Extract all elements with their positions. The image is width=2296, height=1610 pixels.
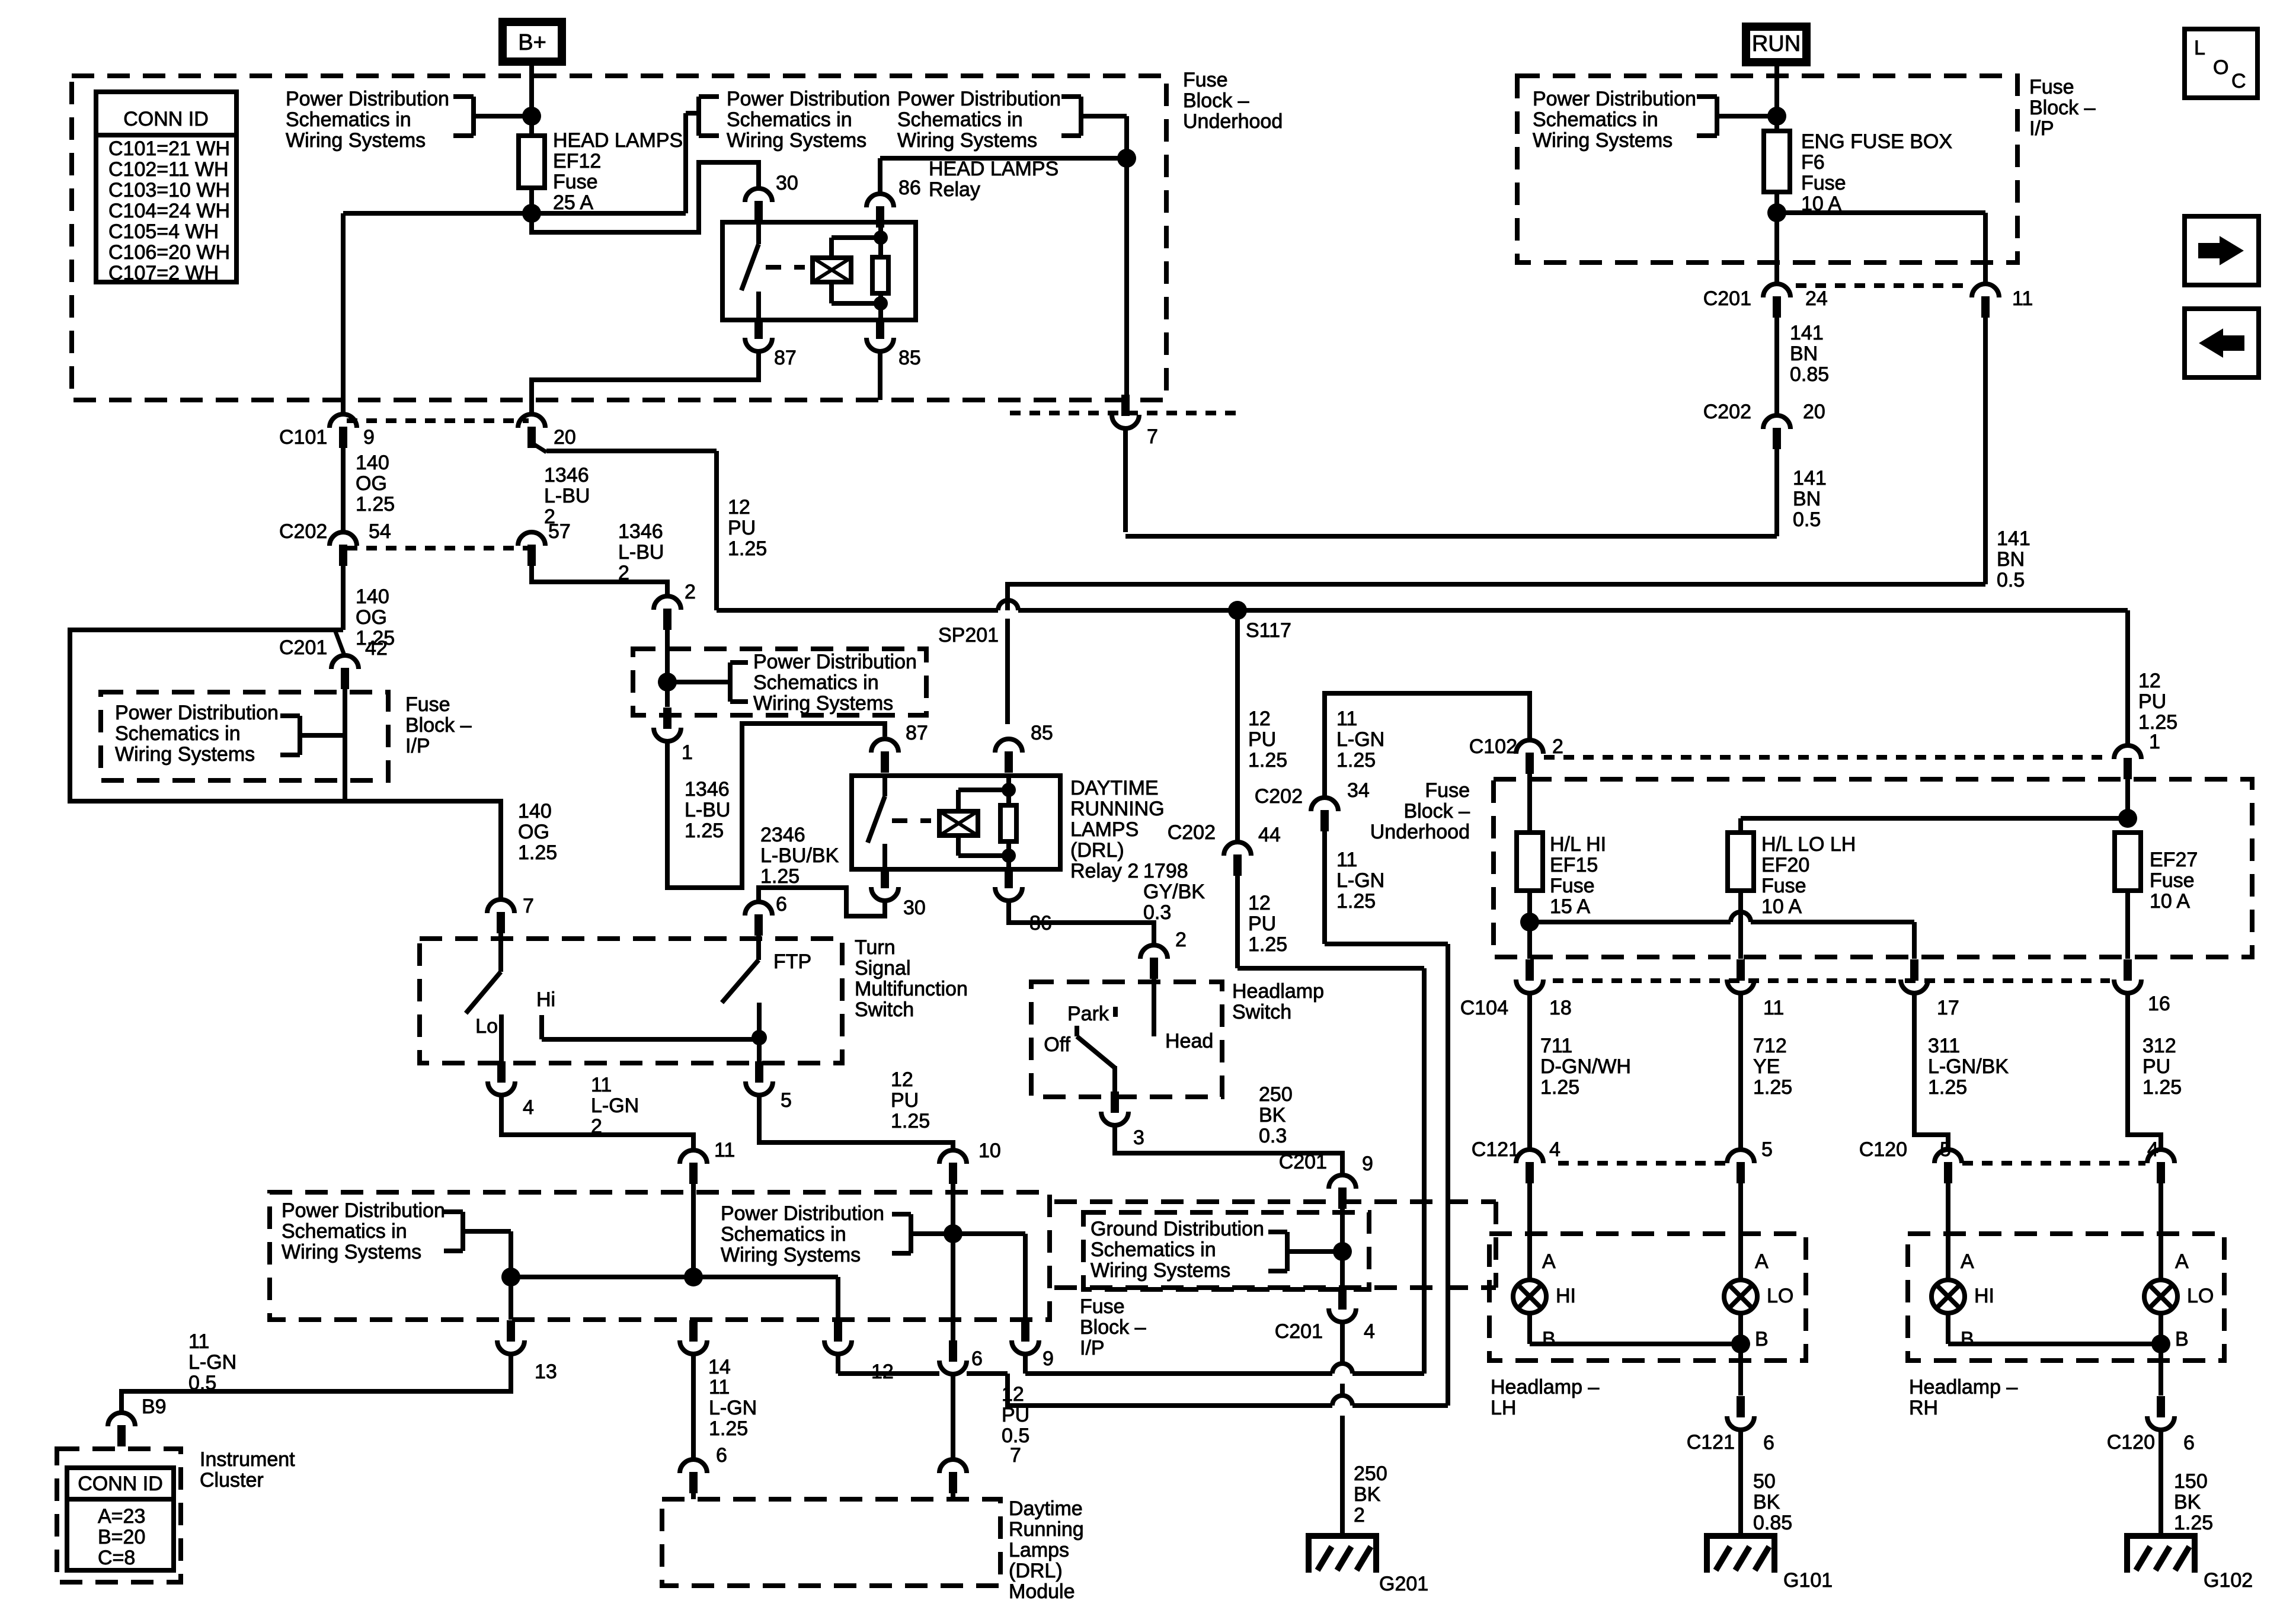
svg-text:C202: C202 bbox=[1255, 785, 1303, 808]
wire S117 to C202-44 bbox=[1237, 610, 1287, 841]
svg-text:140: 140 bbox=[356, 452, 389, 474]
svg-text:OG: OG bbox=[356, 606, 387, 629]
svg-text:10 A: 10 A bbox=[1761, 895, 1802, 918]
svg-text:Fuse: Fuse bbox=[553, 171, 598, 193]
wire 150 BK to G102 bbox=[2161, 1430, 2213, 1536]
svg-text:1.25: 1.25 bbox=[709, 1417, 748, 1440]
wire headlamp switch 3 to C201-9 bbox=[1115, 1083, 1342, 1174]
svg-text:0.85: 0.85 bbox=[1753, 1512, 1792, 1534]
svg-text:C101: C101 bbox=[279, 426, 327, 449]
svg-text:Fuse: Fuse bbox=[2150, 869, 2195, 892]
svg-text:6: 6 bbox=[716, 1444, 727, 1467]
power distribution reference bottom left bbox=[282, 1199, 511, 1277]
svg-text:PU: PU bbox=[728, 517, 756, 539]
svg-text:9: 9 bbox=[1362, 1153, 1373, 1175]
power distribution box bottom bbox=[270, 1192, 1050, 1320]
connector 6 DRL module bbox=[680, 1444, 727, 1499]
svg-text:25 A: 25 A bbox=[553, 191, 593, 214]
power distribution reference 4 fuse block IP bbox=[101, 692, 472, 780]
wire B+ to fuse EF12 bbox=[529, 66, 534, 136]
svg-text:Signal: Signal bbox=[855, 957, 911, 980]
svg-text:C102=11 WH: C102=11 WH bbox=[108, 158, 229, 181]
svg-text:12: 12 bbox=[2138, 670, 2161, 692]
wire 141 BN 0.5 from connector 11 to DRL 85 bbox=[1008, 584, 1985, 724]
connector C201 pin 42 bbox=[279, 630, 388, 689]
svg-text:L-BU/BK: L-BU/BK bbox=[760, 844, 839, 867]
wire EF12 to relay pin 30 bbox=[532, 162, 759, 232]
svg-text:4: 4 bbox=[1364, 1320, 1375, 1343]
CONN ID table instrument cluster bbox=[67, 1468, 174, 1570]
power distribution reference 3 bbox=[897, 88, 1081, 152]
svg-text:Wiring Systems: Wiring Systems bbox=[286, 129, 426, 152]
svg-text:5: 5 bbox=[1761, 1138, 1773, 1161]
connector C104 pin 18 bbox=[1516, 959, 1572, 1019]
svg-text:L-GN: L-GN bbox=[188, 1351, 236, 1374]
svg-text:L-BU: L-BU bbox=[618, 541, 664, 564]
svg-text:H/L HI: H/L HI bbox=[1550, 833, 1606, 856]
svg-text:Power Distribution: Power Distribution bbox=[727, 88, 890, 110]
connector 7 underhood bbox=[1112, 395, 1158, 532]
svg-text:6: 6 bbox=[971, 1347, 983, 1370]
svg-text:0.5: 0.5 bbox=[1793, 508, 1821, 531]
switch arm dimmer bbox=[466, 933, 501, 1013]
svg-text:FTP: FTP bbox=[773, 950, 811, 973]
svg-text:Off: Off bbox=[1044, 1033, 1070, 1056]
svg-text:PU: PU bbox=[1002, 1404, 1029, 1426]
wire bus inside PD box bbox=[501, 1224, 1025, 1341]
svg-text:0.5: 0.5 bbox=[1997, 569, 2025, 591]
svg-text:CONN ID: CONN ID bbox=[78, 1473, 163, 1495]
svg-text:C101=21 WH: C101=21 WH bbox=[108, 137, 230, 160]
svg-text:18: 18 bbox=[1549, 997, 1572, 1019]
svg-text:1.25: 1.25 bbox=[518, 841, 557, 864]
svg-text:L: L bbox=[2194, 37, 2205, 59]
relay HEAD LAMPS box bbox=[722, 158, 1059, 320]
svg-text:Park: Park bbox=[1067, 1003, 1109, 1025]
arrow box left bbox=[2185, 309, 2259, 377]
fuse block IP box top bbox=[1517, 76, 2096, 263]
wire 50 BK to G101 bbox=[1741, 1430, 1792, 1536]
headlamp switch contacts bbox=[1044, 979, 1213, 1097]
svg-text:PU: PU bbox=[2138, 690, 2166, 713]
svg-text:1.25: 1.25 bbox=[728, 537, 767, 560]
svg-text:B: B bbox=[2175, 1328, 2189, 1350]
connector 6 turn signal switch bbox=[745, 893, 787, 936]
svg-text:140: 140 bbox=[356, 585, 389, 608]
svg-text:Lamps: Lamps bbox=[1009, 1539, 1069, 1561]
svg-text:I/P: I/P bbox=[405, 735, 430, 757]
svg-text:12: 12 bbox=[891, 1068, 913, 1091]
svg-text:C201: C201 bbox=[279, 636, 327, 659]
relay HEAD LAMPS coil bbox=[813, 238, 881, 303]
svg-text:C202: C202 bbox=[1168, 821, 1216, 844]
splice S117 bbox=[1228, 601, 1291, 642]
wire 12 PU bus S117 bbox=[717, 600, 2128, 610]
svg-text:Block –: Block – bbox=[1183, 89, 1249, 112]
wire bracket1 to B+ stem bbox=[474, 107, 541, 126]
svg-text:34: 34 bbox=[1347, 779, 1370, 802]
connector row 7 underhood bbox=[1010, 411, 1240, 415]
svg-text:1: 1 bbox=[682, 741, 693, 764]
wire 311 L-GN/BK bbox=[1914, 994, 2009, 1150]
svg-text:Fuse: Fuse bbox=[1183, 69, 1228, 91]
svg-text:312: 312 bbox=[2142, 1035, 2176, 1057]
svg-text:6: 6 bbox=[2183, 1432, 2195, 1454]
relay DRL pin 86 bbox=[995, 867, 1052, 934]
power distribution reference bottom center bbox=[721, 1202, 953, 1266]
svg-text:5: 5 bbox=[1940, 1138, 1951, 1161]
svg-text:10: 10 bbox=[978, 1140, 1001, 1162]
wire EF15 to C104-17 bbox=[1520, 891, 1914, 959]
headlamp LH box bbox=[1489, 1234, 1806, 1419]
svg-text:Block –: Block – bbox=[1404, 800, 1470, 822]
svg-text:Power Distribution: Power Distribution bbox=[1533, 88, 1696, 110]
connector 2 into SP201 bbox=[654, 581, 696, 649]
power distribution reference SP201 bbox=[730, 651, 917, 715]
connector 5 under switch bbox=[746, 1061, 792, 1112]
svg-text:57: 57 bbox=[548, 520, 571, 543]
svg-text:1346: 1346 bbox=[685, 778, 730, 801]
svg-text:7: 7 bbox=[1010, 1444, 1021, 1467]
svg-text:1.25: 1.25 bbox=[760, 865, 800, 888]
svg-text:L-BU: L-BU bbox=[544, 485, 590, 507]
wire SP201 splice bbox=[658, 649, 730, 707]
wire F6 junction bbox=[1767, 192, 1985, 284]
wire connector 6 to DRL module 7 bbox=[953, 1375, 1029, 1459]
wire EF12 to junction bbox=[522, 188, 541, 235]
svg-text:Block –: Block – bbox=[405, 714, 472, 737]
svg-text:85: 85 bbox=[1031, 722, 1053, 744]
connector C202 pin 54 bbox=[279, 520, 391, 566]
svg-text:RH: RH bbox=[1909, 1397, 1938, 1419]
svg-text:11: 11 bbox=[2012, 287, 2033, 310]
connector 4 under switch bbox=[488, 1061, 534, 1119]
svg-text:250: 250 bbox=[1354, 1462, 1387, 1485]
svg-text:DAYTIME: DAYTIME bbox=[1070, 777, 1159, 799]
contact Hi and FTP common bbox=[536, 988, 767, 1063]
svg-text:86: 86 bbox=[898, 177, 921, 199]
svg-text:S117: S117 bbox=[1246, 619, 1291, 642]
svg-text:0.3: 0.3 bbox=[1259, 1125, 1287, 1147]
instrument cluster box bbox=[57, 1448, 295, 1582]
wire 12 PU to EF27 bbox=[2128, 610, 2177, 753]
svg-text:OG: OG bbox=[518, 821, 549, 843]
svg-text:BK: BK bbox=[1354, 1483, 1381, 1506]
svg-text:Power Distribution: Power Distribution bbox=[115, 702, 279, 724]
turn signal multifunction switch box bbox=[420, 936, 968, 1063]
svg-text:Headlamp –: Headlamp – bbox=[1491, 1376, 1599, 1398]
svg-text:Block –: Block – bbox=[1080, 1316, 1146, 1339]
RUN power feed box bbox=[1746, 27, 1806, 62]
wire connector 1 to DRL relay 87 bbox=[667, 724, 885, 888]
power distribution reference RUN bbox=[1533, 88, 1786, 152]
fuse block IP box bottom bbox=[1054, 1202, 1496, 1359]
wire label 140 OG 1.25 upper bbox=[343, 448, 395, 532]
svg-text:12: 12 bbox=[1248, 892, 1271, 914]
connector 7 turn signal switch bbox=[487, 800, 557, 933]
svg-text:C=8: C=8 bbox=[98, 1547, 135, 1569]
svg-text:141: 141 bbox=[1790, 322, 1824, 344]
svg-text:11: 11 bbox=[1763, 997, 1784, 1019]
svg-text:4: 4 bbox=[1549, 1138, 1560, 1161]
svg-text:9: 9 bbox=[363, 426, 375, 449]
svg-text:B+: B+ bbox=[518, 30, 546, 55]
connector 1 out of SP201 bbox=[654, 708, 693, 764]
relay HEAD LAMPS pin 30 bbox=[745, 172, 798, 222]
wire C101-20 to east run bbox=[532, 442, 717, 610]
wire C201-24 to C202-20 bbox=[1777, 318, 1829, 415]
svg-text:15 A: 15 A bbox=[1550, 895, 1590, 918]
svg-text:140: 140 bbox=[518, 800, 552, 822]
svg-text:7: 7 bbox=[523, 895, 534, 917]
wire EF27 to C104-16 bbox=[2125, 891, 2130, 959]
connector 7 DRL module bbox=[939, 1444, 1021, 1499]
svg-text:2: 2 bbox=[591, 1115, 602, 1138]
svg-text:BK: BK bbox=[1753, 1491, 1780, 1513]
connector 11 into PD box bbox=[680, 1139, 735, 1277]
wire C201-9 to C201-4 bbox=[1287, 1209, 1352, 1288]
svg-text:2: 2 bbox=[1175, 929, 1187, 951]
svg-text:LH: LH bbox=[1491, 1397, 1516, 1419]
fuse block underhood box bbox=[72, 76, 1166, 400]
fuse EF15 HL HI 15A bbox=[1517, 833, 1606, 918]
svg-text:Wiring Systems: Wiring Systems bbox=[1091, 1259, 1230, 1282]
wire EF20 to C104-11 bbox=[1738, 891, 1743, 959]
svg-text:311: 311 bbox=[1928, 1035, 1960, 1057]
svg-text:RUNNING: RUNNING bbox=[1070, 798, 1165, 820]
svg-text:Instrument: Instrument bbox=[200, 1448, 295, 1471]
svg-text:PU: PU bbox=[1248, 913, 1276, 935]
connector 14 under PD box bbox=[680, 1320, 731, 1378]
svg-text:Running: Running bbox=[1009, 1518, 1084, 1541]
svg-text:2346: 2346 bbox=[760, 824, 805, 846]
svg-text:1.25: 1.25 bbox=[1540, 1076, 1579, 1099]
svg-text:Wiring Systems: Wiring Systems bbox=[115, 743, 255, 766]
svg-text:B: B bbox=[1961, 1328, 1974, 1350]
ground G101 bbox=[1707, 1536, 1833, 1592]
svg-text:CONN ID: CONN ID bbox=[123, 108, 209, 130]
svg-text:LAMPS: LAMPS bbox=[1070, 818, 1139, 841]
wire junction to C101-9 drop bbox=[343, 213, 686, 413]
connector row C201 top bbox=[1796, 283, 1968, 288]
svg-text:B9: B9 bbox=[142, 1395, 167, 1418]
connector C104 pin 11 bbox=[1727, 959, 1784, 1019]
svg-text:Schematics in: Schematics in bbox=[115, 722, 241, 745]
svg-text:Power Distribution: Power Distribution bbox=[753, 651, 917, 673]
relay DRL coil bbox=[939, 790, 1009, 856]
connector C202 pin 44 bbox=[1168, 821, 1281, 876]
wire C202-57 to SP201 connector 2 bbox=[532, 566, 667, 596]
svg-text:C202: C202 bbox=[1703, 401, 1751, 423]
relay HEAD LAMPS resistor bbox=[872, 222, 888, 320]
svg-text:Multifunction: Multifunction bbox=[855, 978, 968, 1000]
connector row C202 bbox=[347, 546, 529, 550]
svg-text:G201: G201 bbox=[1379, 1573, 1428, 1595]
connector C202 pin 57 bbox=[518, 520, 664, 584]
svg-text:C201: C201 bbox=[1275, 1320, 1323, 1343]
svg-text:4: 4 bbox=[523, 1096, 534, 1119]
wire connector 14 to DRL module 6 bbox=[693, 1355, 757, 1458]
connector C121 pin 6 bbox=[1687, 1396, 1774, 1454]
connector C120 pin 5 bbox=[1934, 1138, 1962, 1280]
svg-text:13: 13 bbox=[535, 1361, 557, 1383]
svg-text:9: 9 bbox=[1043, 1347, 1054, 1370]
svg-text:Lo: Lo bbox=[475, 1015, 498, 1038]
svg-text:BN: BN bbox=[1793, 488, 1821, 510]
svg-text:1.25: 1.25 bbox=[1336, 749, 1376, 772]
svg-text:Schematics in: Schematics in bbox=[286, 108, 411, 131]
svg-text:HEAD LAMPS: HEAD LAMPS bbox=[929, 158, 1059, 180]
svg-text:HI: HI bbox=[1974, 1285, 1994, 1307]
svg-text:A: A bbox=[2175, 1250, 2189, 1273]
svg-text:11: 11 bbox=[709, 1376, 730, 1398]
connector 9 under PD box bbox=[1012, 1320, 1054, 1370]
wire EF27 feed bbox=[1741, 809, 2137, 833]
svg-text:I/P: I/P bbox=[2029, 117, 2054, 140]
svg-text:GY/BK: GY/BK bbox=[1143, 881, 1205, 903]
svg-text:Schematics in: Schematics in bbox=[721, 1223, 846, 1246]
svg-text:3: 3 bbox=[1133, 1126, 1144, 1149]
svg-text:RUN: RUN bbox=[1752, 31, 1801, 56]
svg-text:OG: OG bbox=[356, 472, 387, 495]
svg-text:A: A bbox=[1961, 1250, 1974, 1273]
wire RUN to fuse F6 bbox=[1774, 66, 1779, 131]
svg-text:1.25: 1.25 bbox=[1248, 933, 1287, 956]
svg-text:LO: LO bbox=[2187, 1285, 2214, 1307]
svg-text:Cluster: Cluster bbox=[200, 1469, 264, 1491]
fuse EF12 HEAD LAMPS 25A bbox=[519, 129, 683, 214]
svg-text:Ground Distribution: Ground Distribution bbox=[1091, 1218, 1264, 1240]
svg-text:PU: PU bbox=[2142, 1055, 2170, 1078]
svg-text:Hi: Hi bbox=[536, 988, 555, 1011]
wire to power distribution reference 2 bbox=[686, 113, 699, 213]
svg-text:Power Distribution: Power Distribution bbox=[286, 88, 449, 110]
svg-text:Block –: Block – bbox=[2029, 97, 2096, 119]
svg-text:BN: BN bbox=[1790, 343, 1818, 365]
fuse EF27 10A bbox=[2115, 833, 2198, 913]
svg-text:85: 85 bbox=[898, 347, 921, 369]
svg-text:1.25: 1.25 bbox=[2174, 1512, 2213, 1534]
svg-text:C121: C121 bbox=[1472, 1138, 1520, 1161]
svg-text:L-GN: L-GN bbox=[1336, 869, 1384, 892]
relay DRL pin 85 bbox=[995, 722, 1053, 773]
svg-text:ENG FUSE BOX: ENG FUSE BOX bbox=[1801, 130, 1952, 153]
svg-text:C201: C201 bbox=[1279, 1151, 1327, 1173]
wire C202-34 riser bbox=[1325, 831, 1448, 944]
wire node to relay pin 86 bbox=[880, 158, 1127, 193]
fuse block underhood right box bbox=[1370, 779, 2252, 957]
relay HEAD LAMPS pin 86 bbox=[866, 177, 921, 228]
svg-text:C202: C202 bbox=[279, 520, 327, 543]
svg-text:150: 150 bbox=[2174, 1470, 2208, 1493]
relay DRL switch bbox=[868, 776, 931, 869]
svg-text:D-GN/WH: D-GN/WH bbox=[1540, 1055, 1631, 1078]
svg-text:Power Distribution: Power Distribution bbox=[721, 1202, 884, 1225]
svg-text:11: 11 bbox=[591, 1074, 612, 1096]
svg-text:EF12: EF12 bbox=[553, 150, 601, 172]
svg-text:44: 44 bbox=[1258, 824, 1281, 846]
svg-text:BK: BK bbox=[1259, 1104, 1286, 1126]
svg-text:2: 2 bbox=[1552, 735, 1563, 758]
svg-text:EF27: EF27 bbox=[2150, 849, 2198, 871]
svg-text:Fuse: Fuse bbox=[1761, 875, 1806, 897]
svg-text:2: 2 bbox=[1354, 1504, 1365, 1526]
wire relay 85 down bbox=[878, 352, 882, 400]
svg-text:L-BU: L-BU bbox=[685, 799, 730, 821]
wire relay 87 to C101-20 bbox=[532, 352, 759, 413]
svg-text:PU: PU bbox=[891, 1089, 919, 1112]
svg-text:250: 250 bbox=[1259, 1083, 1293, 1106]
svg-text:7: 7 bbox=[1147, 425, 1158, 448]
svg-text:PU: PU bbox=[1248, 728, 1276, 751]
svg-text:11: 11 bbox=[188, 1330, 209, 1353]
relay DRL pin 30 bbox=[871, 867, 926, 919]
svg-text:Fuse: Fuse bbox=[1425, 779, 1470, 802]
svg-text:5: 5 bbox=[781, 1089, 792, 1112]
svg-text:B=20: B=20 bbox=[98, 1526, 145, 1548]
connector C120 pin 4 bbox=[2147, 1138, 2175, 1280]
svg-text:1.25: 1.25 bbox=[356, 493, 395, 516]
svg-text:Wiring Systems: Wiring Systems bbox=[753, 692, 893, 715]
svg-text:54: 54 bbox=[369, 520, 391, 543]
svg-text:L-GN: L-GN bbox=[1336, 728, 1384, 751]
svg-text:0.3: 0.3 bbox=[1143, 901, 1171, 924]
svg-text:Turn: Turn bbox=[855, 936, 896, 959]
svg-text:H/L LO LH: H/L LO LH bbox=[1761, 833, 1856, 856]
wire RH bulb common bbox=[1948, 1334, 2170, 1395]
svg-text:G102: G102 bbox=[2204, 1569, 2253, 1592]
svg-text:Fuse: Fuse bbox=[2029, 76, 2074, 98]
svg-text:12: 12 bbox=[728, 496, 750, 518]
svg-text:Power Distribution: Power Distribution bbox=[897, 88, 1061, 110]
svg-text:30: 30 bbox=[776, 172, 798, 194]
connector row C121 bbox=[1472, 1138, 1726, 1163]
fuse F6 ENG FUSE BOX 10A bbox=[1764, 130, 1952, 215]
svg-text:C107=2 WH: C107=2 WH bbox=[108, 262, 219, 284]
wire LH bulb common bbox=[1530, 1334, 1750, 1395]
connector C101 pin 9 bbox=[279, 414, 375, 449]
svg-text:Schematics in: Schematics in bbox=[282, 1220, 407, 1243]
svg-text:Headlamp –: Headlamp – bbox=[1909, 1376, 2017, 1398]
svg-text:1.25: 1.25 bbox=[2142, 1076, 2182, 1099]
svg-text:Daytime: Daytime bbox=[1009, 1497, 1083, 1520]
svg-text:C120: C120 bbox=[2107, 1431, 2155, 1454]
svg-text:Schematics in: Schematics in bbox=[727, 108, 852, 131]
svg-text:C103=10 WH: C103=10 WH bbox=[108, 179, 230, 201]
wire C202-54 to C201-42 bbox=[341, 566, 346, 630]
connector 13 under PD box bbox=[497, 1320, 557, 1383]
svg-text:1.25: 1.25 bbox=[1928, 1076, 1967, 1099]
svg-text:141: 141 bbox=[1997, 527, 2030, 550]
connector 12 under PD box bbox=[824, 1320, 894, 1383]
wire connector 13 to B9 bbox=[121, 1330, 511, 1414]
svg-text:20: 20 bbox=[554, 426, 576, 449]
svg-text:Switch: Switch bbox=[1232, 1001, 1291, 1023]
svg-text:50: 50 bbox=[1753, 1470, 1776, 1493]
connector row C104 bbox=[1460, 981, 2110, 1019]
svg-text:11: 11 bbox=[714, 1139, 735, 1161]
svg-text:4: 4 bbox=[2147, 1138, 2159, 1161]
arrow box right bbox=[2185, 216, 2259, 285]
svg-text:Wiring Systems: Wiring Systems bbox=[721, 1244, 861, 1266]
wire 711 D-GN/WH bbox=[1530, 994, 1631, 1150]
B+ power feed box bbox=[503, 22, 562, 62]
wire 312 PU bbox=[2128, 994, 2182, 1150]
svg-text:Head: Head bbox=[1165, 1030, 1213, 1052]
svg-text:12: 12 bbox=[1248, 708, 1271, 730]
svg-text:A: A bbox=[1542, 1250, 1556, 1273]
contact Lo bbox=[475, 1014, 501, 1063]
